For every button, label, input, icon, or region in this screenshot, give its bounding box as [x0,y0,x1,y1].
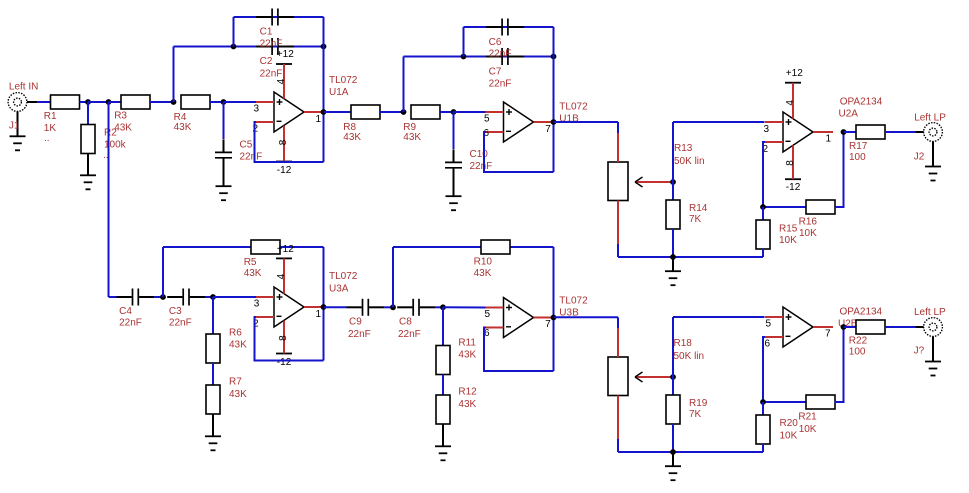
svg-text:R21: R21 [798,412,817,423]
svg-text:43K: 43K [403,132,421,143]
svg-text:5: 5 [766,319,772,330]
ground rail symbol top [665,257,681,285]
svg-text:43K: 43K [229,389,247,400]
svg-text:R17: R17 [849,141,868,152]
capacitor C9 [347,299,385,316]
svg-text:43K: 43K [343,132,361,143]
node ground rail junction bottom [670,449,676,455]
wire R8 to node E [380,111,404,113]
svg-text:1: 1 [826,134,832,145]
svg-text:43K: 43K [244,268,262,279]
wire node A to node B [88,101,109,103]
node G junction [160,294,166,300]
node I junction [390,304,396,310]
wire R11 to R12 [442,375,444,396]
svg-text:1: 1 [316,114,322,125]
wire node H down to R6 [212,297,214,334]
svg-text:R20: R20 [780,418,799,429]
svg-text:10K: 10K [780,431,798,442]
wire U1A pin2 loop [255,122,324,162]
op-amp U1A [256,92,324,132]
node C junction [171,99,177,105]
wire node E up to C7 net [403,57,405,113]
wire input to C4 [109,296,118,298]
wire R1 to node A [80,101,89,103]
wire C7 net horizontal [404,56,554,58]
svg-text:22nF: 22nF [398,329,421,340]
wire R10 net horizontal [393,246,554,248]
wire node B to R3 [109,101,122,103]
svg-text:R1: R1 [44,111,57,122]
svg-text:C6: C6 [489,37,502,48]
svg-text:Left LP: Left LP [914,112,946,123]
svg-text:1: 1 [316,309,322,320]
svg-text:C8: C8 [399,317,412,328]
node U3B output [551,315,557,321]
wire R12 to ground [442,424,444,446]
connector J1 Left IN [8,93,37,137]
svg-text:8: 8 [278,139,289,145]
wire node F to U1B pin5 [454,111,486,113]
svg-text:R14: R14 [689,203,708,214]
wire wiper down to R14 [672,182,674,200]
svg-text:C9: C9 [349,317,362,328]
resistor R22 [856,320,885,334]
svg-text:100: 100 [849,152,866,163]
resistor R6 [206,334,220,363]
ground R7 [205,436,221,450]
wire fb junction down to R15 [762,207,764,220]
junction C6-C7 right [551,54,557,60]
svg-text:R3: R3 [114,111,127,122]
potentiometer R13 [608,133,673,244]
wire node C up to C2 net [173,47,175,103]
power -12 U3A [276,321,292,368]
wire node A down to R2 [87,102,89,125]
connector J? Left LP [915,318,942,337]
svg-text:5: 5 [485,309,491,320]
node U3A output [321,304,327,310]
wire wiper up bottom [672,317,674,377]
resistor R3 [121,95,150,109]
wire R9 to node F [440,111,454,113]
svg-text:4: 4 [276,78,287,84]
node H junction [210,294,216,300]
svg-text:22nF: 22nF [260,68,283,79]
svg-text:C2: C2 [260,56,273,67]
wire node H to U3A pin3 [213,296,256,298]
wire R19 to ground rail [672,424,674,452]
wire node D to U1A pin3 [224,101,257,103]
svg-text:R7: R7 [229,376,242,387]
ground rail top [618,256,763,258]
svg-text:R6: R6 [229,327,242,338]
wire R17 to J2 [885,131,915,133]
wire U1A output feedback vertical [323,17,325,162]
wire node D down to C5 [223,102,225,139]
wire R7 to ground [212,414,214,436]
power +12 U3A [276,244,294,294]
capacitor C4 [117,289,155,306]
resistor R10 [481,240,510,254]
svg-text:R16: R16 [799,217,818,228]
wire U3B pin6 loop [484,328,554,372]
wire node B down to bottom half [108,102,110,297]
wire U1B output feedback vertical [553,27,555,172]
resistor R14 [666,200,680,229]
svg-text:R22: R22 [849,336,868,347]
ground R12 [435,446,451,460]
svg-text:8: 8 [278,335,289,341]
ground R2 [80,175,96,189]
wire node I up to R10 net [392,247,394,307]
junction C6-C7 left [461,54,467,60]
capacitor C3 [167,289,205,306]
svg-text:TL072: TL072 [559,296,588,307]
svg-text:43K: 43K [174,122,192,133]
wire node K down to R11 [442,307,444,345]
op-amp U1B [486,102,554,142]
op-amp U3B [486,298,554,338]
svg-text:TL072: TL072 [329,271,358,282]
wire C4 to node G [154,296,163,298]
wire node F down to C10 [453,112,455,149]
svg-text:R13: R13 [674,143,693,154]
svg-text:22nF: 22nF [119,318,142,329]
resistor R4 [181,95,210,109]
svg-text:22nF: 22nF [470,161,493,172]
wire R15 to ground rail [762,249,764,257]
ground C10 [446,196,462,210]
svg-text:R12: R12 [458,386,477,397]
svg-text:7: 7 [825,329,831,340]
svg-text:6: 6 [765,339,771,350]
wire node G up to R5 net [162,247,164,297]
svg-text:U3A: U3A [329,283,349,294]
svg-text:10K: 10K [779,235,797,246]
svg-text:..: .. [44,133,50,144]
wire down to pot R13 [617,122,619,133]
wire fb junction down to R20 [762,402,764,415]
wire R21 to U2B output [835,327,844,402]
svg-text:R5: R5 [244,257,257,268]
node U2B fb junction [760,399,766,405]
junction C1-C2 left [231,44,237,50]
svg-text:8: 8 [785,160,796,166]
wire R4 to node D [210,101,224,103]
resistor R2 [81,125,95,154]
svg-text:C3: C3 [169,306,182,317]
wire R20 to ground rail [762,444,764,452]
svg-text:OPA2134: OPA2134 [840,306,883,317]
capacitor C10 [445,149,462,167]
resistor R5 [251,240,280,254]
capacitor C7 [486,48,524,65]
wire R14 to ground rail [672,229,674,257]
capacitor C6 [486,19,524,36]
wire J2 to ground [932,141,934,166]
wire C10 to ground [453,168,455,196]
wire R2 to ground [87,154,89,176]
op-amp U3A [256,287,324,327]
wire U2A out to R17 [844,131,857,133]
node F junction [451,109,457,115]
svg-text:Left LP: Left LP [914,307,946,318]
svg-text:C10: C10 [470,149,489,160]
wire C8 to node K [435,306,443,308]
node wiper R18 [670,374,676,380]
svg-text:22nF: 22nF [169,318,192,329]
wire U3B output feedback vertical [553,247,555,371]
svg-text:R15: R15 [779,224,798,235]
power -12 U2A [785,145,801,193]
svg-text:7K: 7K [689,409,702,420]
wire R16 to U2A output [835,132,844,207]
node U1A output [321,109,327,115]
wire U3A out to C9 [324,306,347,308]
svg-text:C5: C5 [240,139,253,150]
wire up to C1 net left [233,17,235,47]
op-amp U2B [765,307,833,347]
capacitor C8 [397,299,435,316]
wire wiper down to R19 [672,377,674,395]
resistor R15 [756,220,770,249]
wire R5 net horizontal [163,246,324,248]
wire U2B out to R22 [844,326,857,328]
resistor R11 [436,346,450,375]
node A junction [85,99,91,105]
svg-text:-12: -12 [277,357,292,368]
svg-text:OPA2134: OPA2134 [840,97,883,108]
svg-text:22nF: 22nF [489,48,512,59]
node U2A fb junction [760,204,766,210]
wire node K to U3B pin5 [443,306,486,308]
resistor R20 [756,415,770,444]
wire R3 to node C [150,101,174,103]
node ground rail junction [670,254,676,260]
svg-text:J2: J2 [914,151,925,162]
wire C3 to node H [205,296,213,298]
wire C9 to node I [384,306,393,308]
wire wiper up [672,122,674,182]
capacitor C5 [215,139,232,157]
svg-text:J?: J? [914,345,925,356]
resistor R1 [51,95,80,109]
svg-text:22nF: 22nF [240,151,263,162]
resistor R8 [351,105,380,119]
wire U1B out to pot corner [554,121,619,123]
wire U2A pin2 loop [763,142,806,207]
wire R22 to J3 [885,326,915,328]
svg-text:U1A: U1A [329,87,349,98]
svg-text:50K lin: 50K lin [674,351,705,362]
wire J1 to R1 [37,101,50,103]
svg-text:C4: C4 [119,306,132,317]
svg-text:-12: -12 [786,182,801,193]
svg-text:U2A: U2A [839,108,859,119]
svg-text:TL072: TL072 [329,75,358,86]
wire wiper to U2B pin5 [673,316,765,318]
node U2B output [841,324,847,330]
svg-text:10K: 10K [799,424,817,435]
wire pot R13 bottom to ground rail [617,244,619,257]
wire up to C6 net left [463,27,465,57]
wire U1B pin6 loop [484,132,554,172]
power +12 U1A [276,49,294,99]
svg-text:3: 3 [764,124,770,135]
ground J1 [10,136,26,150]
potentiometer R18 [608,328,673,439]
ground J2 [925,167,941,181]
wire C1 net horizontal [234,16,324,18]
resistor R16 [806,200,835,214]
node U2A output [841,129,847,135]
svg-text:Left IN: Left IN [9,82,38,93]
svg-text:+12: +12 [786,68,803,79]
svg-text:7: 7 [545,124,551,135]
power -12 U1A [276,126,292,176]
node E junction [401,109,407,115]
svg-text:R10: R10 [474,257,493,268]
connector J2 Left LP [915,123,942,142]
svg-text:-12: -12 [277,165,292,176]
wire pot R18 bottom to ground rail [617,439,619,452]
resistor R19 [666,395,680,424]
svg-text:J1: J1 [9,121,20,132]
svg-text:43K: 43K [458,399,476,410]
capacitor C1 [256,9,294,26]
wire U3B out to pot corner [554,316,619,318]
resistor R21 [806,395,835,409]
ground J? [925,362,941,376]
capacitor C2 [256,38,294,55]
wire U2B pin6 loop [763,337,806,402]
ground rail bottom [618,451,763,453]
svg-text:4: 4 [276,273,287,279]
wire R6 to R7 [212,363,214,385]
svg-text:3: 3 [254,104,260,115]
svg-text:R11: R11 [458,337,476,348]
node K junction [440,304,446,310]
svg-text:43K: 43K [114,122,132,133]
node D junction [221,99,227,105]
svg-text:43K: 43K [458,349,476,360]
svg-text:7K: 7K [689,214,702,225]
svg-text:22nF: 22nF [348,329,371,340]
power +12 U2A [785,68,803,119]
junction C1-C2 right [321,44,327,50]
wire wiper to U2A pin3 [673,121,765,123]
resistor R17 [856,125,885,139]
svg-text:R19: R19 [689,398,708,409]
resistor R7 [206,385,220,414]
svg-text:+12: +12 [277,244,294,255]
op-amp U2A [765,112,833,152]
svg-text:100: 100 [849,347,866,358]
svg-text:C7: C7 [489,66,502,77]
node B junction [106,99,112,105]
svg-text:C1: C1 [260,27,273,38]
wire C2 net horizontal [174,46,324,48]
wire down to pot R18 [617,317,619,328]
wire U1A out to R8 [324,111,351,113]
svg-text:22nF: 22nF [489,78,512,89]
svg-text:7: 7 [545,319,551,330]
svg-text:+12: +12 [277,49,294,60]
svg-text:43K: 43K [229,340,247,351]
ground rail symbol bottom [665,452,681,480]
resistor R12 [436,395,450,424]
wire J? to ground [932,336,934,361]
svg-text:R18: R18 [674,338,693,349]
svg-text:50K lin: 50K lin [674,156,705,167]
wire C5 to ground [223,158,225,186]
svg-text:43K: 43K [474,268,492,279]
node wiper R13 [670,179,676,185]
wire U3A pin2 loop [255,317,324,361]
node U1B output [551,119,557,125]
svg-text:TL072: TL072 [559,101,588,112]
svg-text:4: 4 [785,100,796,106]
svg-text:3: 3 [254,299,260,310]
wire U3A output feedback vertical [323,247,325,361]
resistor R9 [411,105,440,119]
ground C5 [216,186,232,200]
svg-text:10K: 10K [799,228,817,239]
wire C6 net horizontal [464,26,554,28]
svg-text:5: 5 [484,114,490,125]
